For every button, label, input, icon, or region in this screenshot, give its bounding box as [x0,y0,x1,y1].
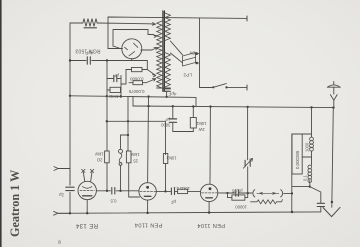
tube V1 RENS1503 [122,39,142,59]
trimmer capacitor C10 [247,107,249,193]
ground symbol [323,207,340,216]
wire R6 R7 lamp drops [107,163,140,197]
capacitor C7 [171,188,174,195]
svg-text:1kW: 1kW [95,152,103,157]
svg-text:a: a [58,240,61,246]
bus B (HT rail) [133,106,334,108]
wire cathode feed drop [146,61,148,70]
tap arrow A3 [152,47,157,50]
capacitor C8 [236,190,239,196]
resistor R1 top [70,19,97,27]
wire busA-busB stub [132,96,134,106]
wire output column [291,134,293,212]
capacitor C6 [112,188,115,194]
capacitor C5 input [66,187,74,190]
wire grid to tube V1 [108,48,123,50]
svg-text:10kΩ 0,1: 10kΩ 0,1 [172,186,190,191]
svg-text:1W: 1W [199,127,205,132]
svg-text:2Ω: 2Ω [97,158,102,163]
wire V2 grid left [69,169,71,184]
wire top rail to terminal [108,17,247,49]
coil L1 boxed [292,134,302,174]
wire L1 top link [292,108,312,137]
svg-text:5V: 5V [188,50,195,56]
svg-text:LP2: LP2 [183,72,192,78]
antenna symbol [327,82,340,88]
wire transformer bottom [157,87,171,89]
transformer T1 core [163,11,165,91]
svg-text:10kΩ: 10kΩ [167,156,177,161]
wire vertical x107 [106,61,108,152]
svg-text:PEN 1104: PEN 1104 [197,222,225,228]
resistor R2 0,5MOhm box [110,87,121,92]
terminal tick T1 [246,16,248,21]
tap arrow A1 [150,23,156,26]
svg-text:1000: 1000 [304,142,309,152]
wire V2 top connections [83,172,92,182]
wire HT right drop [332,108,334,208]
wire V3 anode coupling [156,190,170,192]
wire right vertical feed [199,18,201,88]
terminal tick T2 [246,85,248,90]
mark x-cross 2 [90,169,93,172]
capacitor C9 block 10000 [228,193,248,198]
svg-text:0,5: 0,5 [110,199,117,204]
tap arrow A2 [153,35,157,38]
wire anode top to transformer tap [97,22,150,25]
wire secondary to lamp LP [170,41,182,63]
bus A (grid return) [70,96,196,107]
potentiometer R10 zigzag [251,200,283,204]
coil L3 winding [308,165,312,182]
wire left main vertical [69,23,71,214]
capacitor C3 4uF at core bottom [163,89,171,92]
wire V1 cathode down [131,58,133,60]
capacitor C11 [317,203,324,206]
resistor R3 box 0,0600 [132,68,143,72]
link symbol (speaker connector) [253,190,283,197]
resistor R7 box [126,151,131,163]
wire L3 bottom [292,181,321,203]
tap arrow A5 [146,79,156,83]
label C4 [161,117,171,128]
svg-text:25: 25 [133,159,138,164]
bus bottom chassis [58,212,321,213]
wire V1 anode to transformer tap [141,49,152,51]
tube V3 PEN1104 [139,183,156,200]
node junction dots left [69,59,168,98]
svg-text:μF: μF [113,73,119,78]
resistor R9 box [178,189,188,193]
svg-text:0,00075: 0,00075 [128,89,144,94]
transformer T1 secondary upper [165,13,171,41]
capacitor C1 4uF [87,57,90,64]
resistor R1 underline mark [84,27,97,29]
wire heater rail y121.5 [107,121,166,154]
wire V2 cathode [86,200,88,214]
lamp LP2 5V block [183,53,196,67]
svg-text:10000: 10000 [235,204,247,209]
wire HT drop to smoothing cap [172,106,174,118]
tap arrow A4 [147,70,156,77]
transformer T1 secondary lower [165,53,171,88]
resistor R8 box [163,154,167,164]
wire grid-leak branch [107,76,121,97]
wire lamp jog [121,135,129,149]
svg-text:4μF: 4μF [168,92,176,97]
capacitor C4 [169,119,176,122]
terminal arrow P2 [54,211,70,215]
svg-text:Geatron 1 W: Geatron 1 W [8,170,22,237]
tube V2 RE134 [78,181,96,199]
svg-text:RE 134: RE 134 [75,222,98,228]
resistor R6 box [105,151,110,163]
svg-text:RGN 1503: RGN 1503 [75,48,100,54]
svg-text:1kW: 1kW [131,152,139,157]
switch S1 [200,87,213,89]
wire x128 drop [127,96,129,151]
wire R3/R4 left drop [121,70,126,85]
capacitor C2 grid [114,75,117,81]
label R5 [197,121,207,132]
svg-text:0,1: 0,1 [303,175,308,181]
svg-text:2μ: 2μ [59,193,64,198]
transformer T1 primary winding [157,21,162,88]
svg-text:PEN 1104: PEN 1104 [135,222,163,228]
wire V4 anode right [218,192,252,194]
lamp LA1 [119,149,123,153]
node dots on bus B [147,105,334,109]
wire screen-grid loop [113,30,153,49]
wire tap to L1 [302,151,311,165]
svg-text:0,000285: 0,000285 [295,150,300,169]
svg-text:μ0,05: μ0,05 [231,188,242,193]
mark x-cross 1 [82,169,85,172]
resistor R4 box 0,00075 [133,81,143,85]
wire V2 anode to V1 grid [96,190,138,192]
svg-text:μF: μF [170,200,176,205]
svg-text:10kΩ: 10kΩ [197,121,207,126]
resistor R5 box [190,118,196,129]
terminal arrow P1 [54,167,70,171]
coil L2 winding [310,137,314,151]
node cathode wire y60.5 [70,60,147,62]
tube V4 PEN1104 [200,184,217,201]
